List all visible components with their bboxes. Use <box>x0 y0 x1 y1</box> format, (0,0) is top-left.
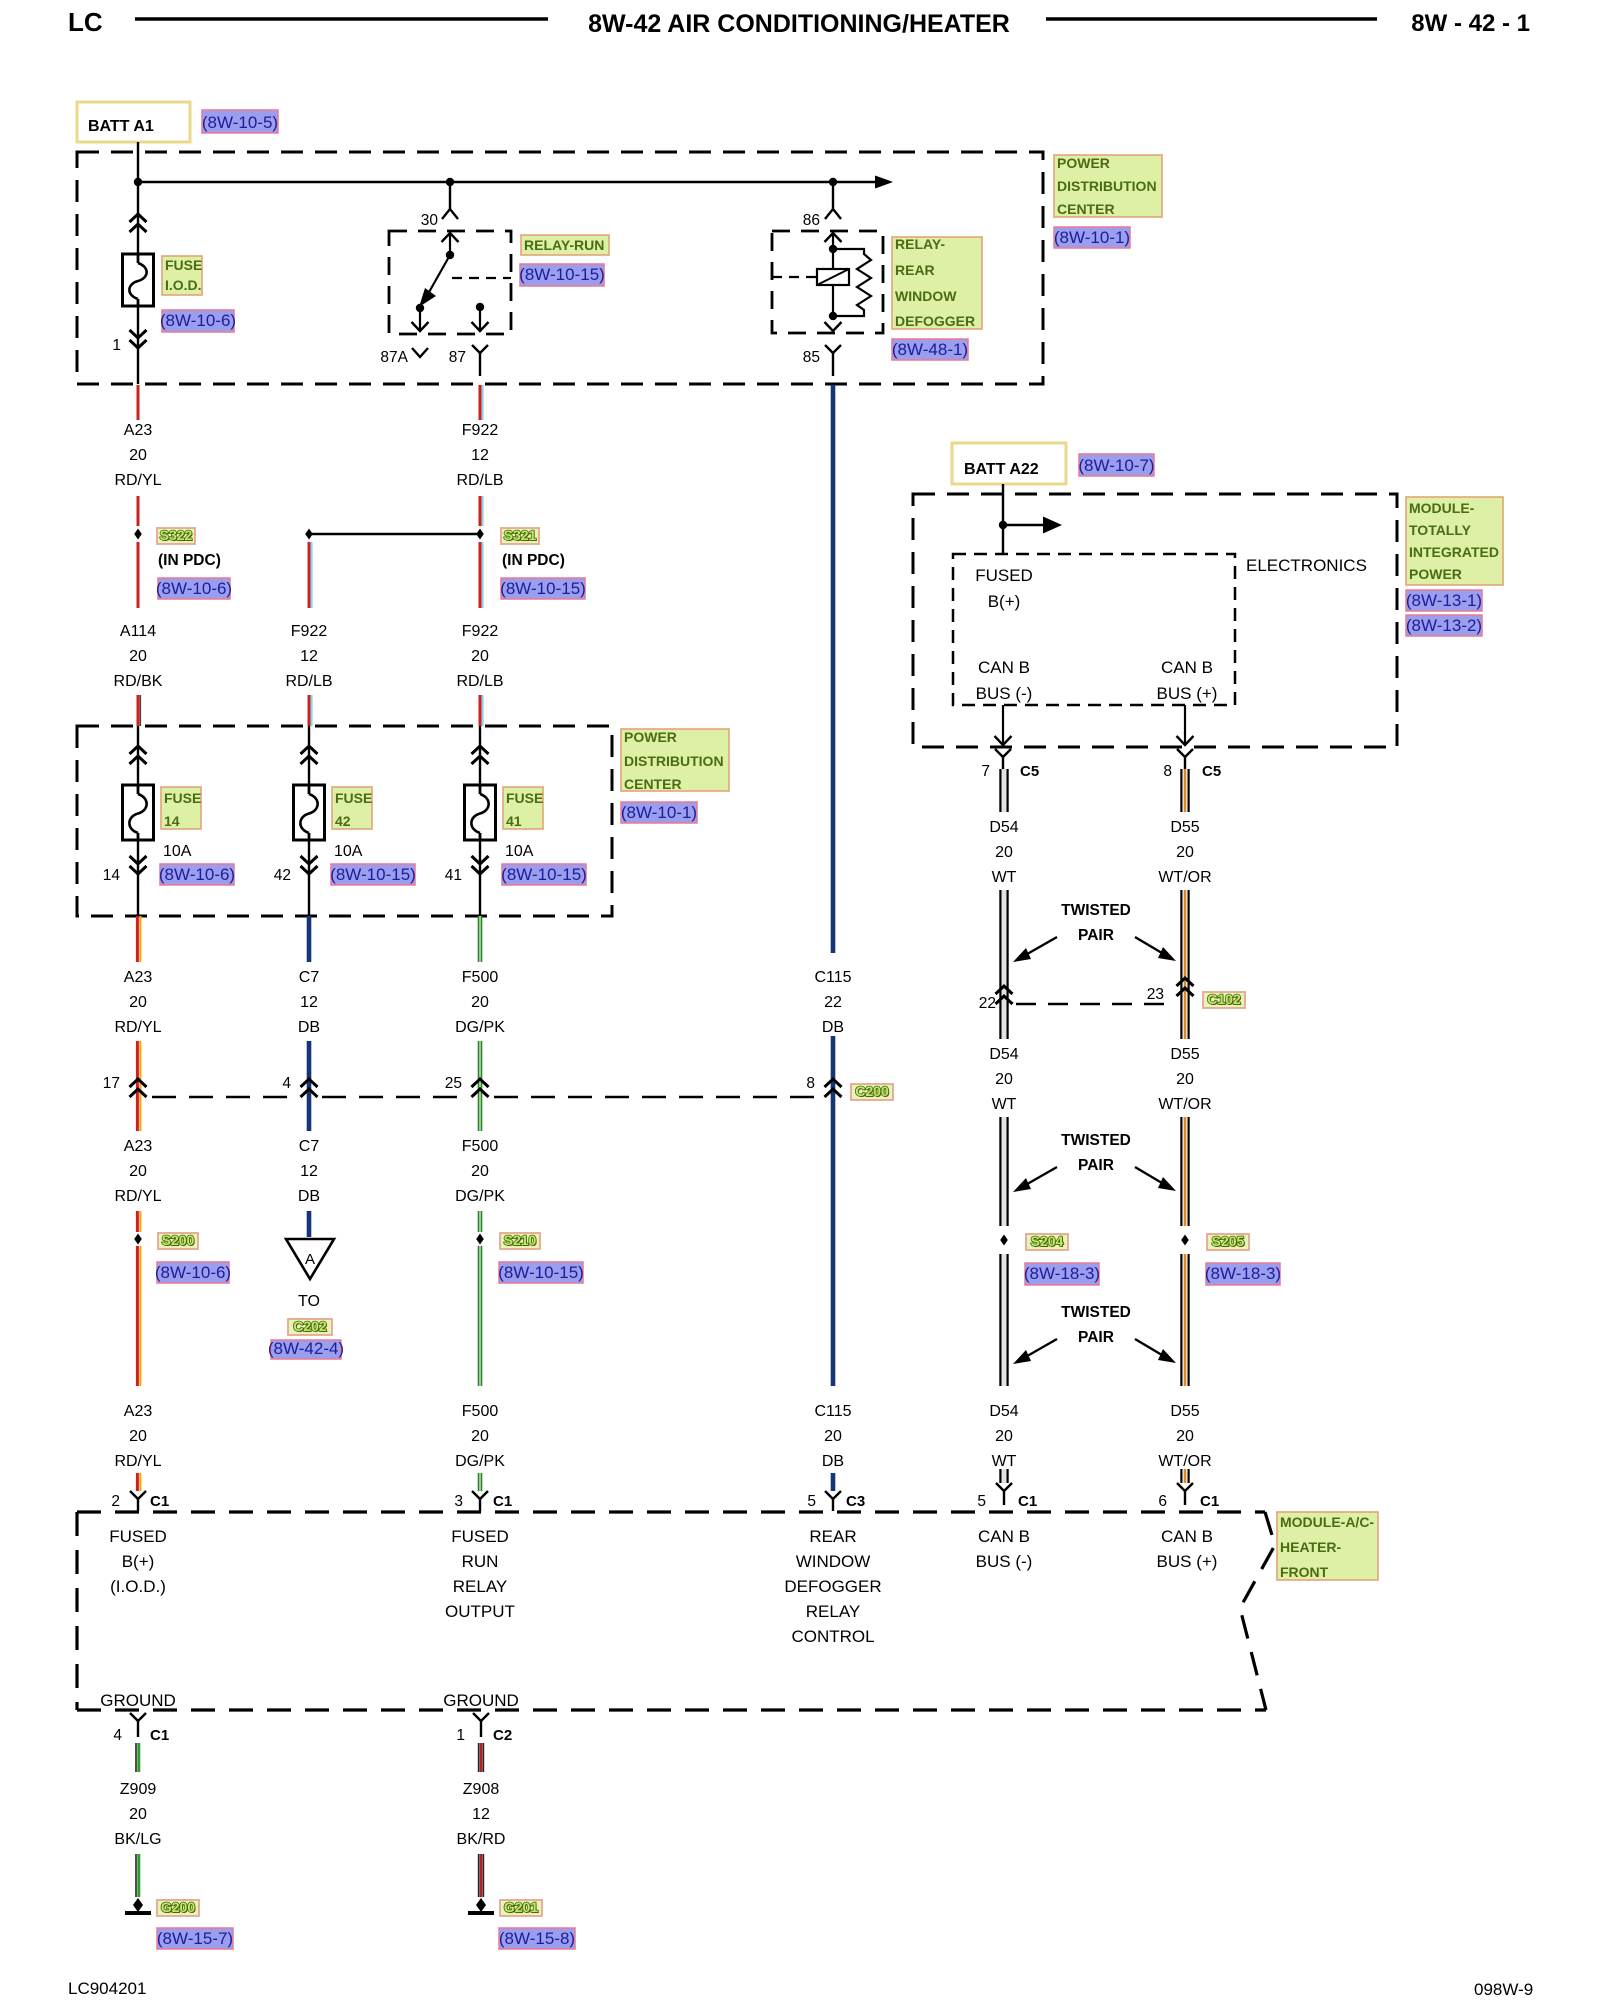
svg-text:BK/RD: BK/RD <box>457 1831 506 1848</box>
svg-text:C200: C200 <box>855 1083 889 1099</box>
svg-text:(8W-13-1): (8W-13-1) <box>1406 591 1482 610</box>
svg-text:(8W-10-6): (8W-10-6) <box>160 311 236 330</box>
svg-text:Z908: Z908 <box>463 1781 500 1798</box>
svg-text:FUSE: FUSE <box>335 790 372 806</box>
svg-text:RD/YL: RD/YL <box>114 1453 161 1470</box>
svg-text:B(+): B(+) <box>988 592 1021 611</box>
svg-text:LC: LC <box>68 7 103 37</box>
svg-text:14: 14 <box>103 867 121 884</box>
svg-text:ELECTRONICS: ELECTRONICS <box>1246 556 1367 575</box>
svg-text:A23: A23 <box>124 1138 153 1155</box>
svg-text:8W - 42 - 1: 8W - 42 - 1 <box>1411 10 1530 37</box>
svg-text:17: 17 <box>103 1075 120 1092</box>
svg-text:A114: A114 <box>120 623 156 640</box>
svg-text:D55: D55 <box>1170 1046 1199 1063</box>
svg-text:S204: S204 <box>1031 1233 1064 1249</box>
svg-text:BUS (-): BUS (-) <box>976 684 1033 703</box>
svg-text:(8W-10-1): (8W-10-1) <box>1054 228 1130 247</box>
svg-text:FUSE: FUSE <box>506 790 543 806</box>
svg-text:DISTRIBUTION: DISTRIBUTION <box>624 753 724 769</box>
svg-text:(8W-10-6): (8W-10-6) <box>159 865 235 884</box>
svg-text:RD/LB: RD/LB <box>456 472 503 489</box>
svg-text:MODULE-A/C-: MODULE-A/C- <box>1280 1514 1374 1530</box>
svg-text:(8W-10-5): (8W-10-5) <box>202 113 278 132</box>
svg-text:B(+): B(+) <box>122 1552 155 1571</box>
svg-text:BUS (+): BUS (+) <box>1157 1552 1218 1571</box>
svg-text:(8W-10-15): (8W-10-15) <box>498 1263 584 1282</box>
svg-text:RD/LB: RD/LB <box>285 673 332 690</box>
svg-text:20: 20 <box>995 1071 1013 1088</box>
svg-text:Z909: Z909 <box>120 1781 157 1798</box>
svg-text:41: 41 <box>445 867 462 884</box>
svg-text:TWISTED: TWISTED <box>1061 902 1131 919</box>
svg-text:5: 5 <box>807 1493 816 1510</box>
svg-text:CAN B: CAN B <box>1161 658 1213 677</box>
svg-text:C115: C115 <box>814 969 851 986</box>
svg-text:C1: C1 <box>150 1493 169 1510</box>
svg-text:TOTALLY: TOTALLY <box>1409 522 1472 538</box>
svg-text:OUTPUT: OUTPUT <box>445 1602 515 1621</box>
svg-text:RD/YL: RD/YL <box>114 472 161 489</box>
svg-text:DB: DB <box>298 1188 320 1205</box>
svg-text:(I.O.D.): (I.O.D.) <box>110 1577 166 1596</box>
svg-text:10A: 10A <box>505 843 534 860</box>
svg-text:20: 20 <box>995 844 1013 861</box>
svg-text:C5: C5 <box>1020 763 1039 780</box>
svg-text:RD/BK: RD/BK <box>114 673 163 690</box>
svg-text:GROUND: GROUND <box>100 1691 176 1710</box>
svg-text:FUSE: FUSE <box>164 790 201 806</box>
svg-text:DB: DB <box>822 1453 844 1470</box>
svg-text:CONTROL: CONTROL <box>791 1627 874 1646</box>
svg-text:20: 20 <box>471 1428 489 1445</box>
svg-text:PAIR: PAIR <box>1078 927 1114 944</box>
svg-text:D54: D54 <box>989 819 1018 836</box>
svg-text:25: 25 <box>445 1075 462 1092</box>
svg-text:BUS (+): BUS (+) <box>1157 684 1218 703</box>
svg-text:22: 22 <box>979 995 996 1012</box>
svg-text:D55: D55 <box>1170 819 1199 836</box>
svg-text:RD/YL: RD/YL <box>114 1019 161 1036</box>
svg-text:F922: F922 <box>462 623 499 640</box>
svg-text:A: A <box>305 1251 315 1268</box>
svg-text:WT: WT <box>992 1096 1017 1113</box>
svg-text:CAN B: CAN B <box>978 1527 1030 1546</box>
svg-text:8: 8 <box>806 1075 815 1092</box>
svg-text:POWER: POWER <box>1409 566 1462 582</box>
svg-text:RD/LB: RD/LB <box>456 673 503 690</box>
svg-text:20: 20 <box>824 1428 842 1445</box>
svg-text:20: 20 <box>471 1163 489 1180</box>
svg-text:G201: G201 <box>504 1899 538 1915</box>
svg-text:20: 20 <box>129 648 147 665</box>
svg-text:C1: C1 <box>493 1493 512 1510</box>
svg-text:REAR: REAR <box>895 262 935 278</box>
svg-text:C5: C5 <box>1202 763 1221 780</box>
svg-text:20: 20 <box>129 1806 147 1823</box>
svg-text:(8W-10-15): (8W-10-15) <box>500 579 586 598</box>
svg-text:CENTER: CENTER <box>624 776 682 792</box>
svg-text:BATT A1: BATT A1 <box>88 118 154 135</box>
svg-text:WT/OR: WT/OR <box>1158 1453 1211 1470</box>
svg-text:RELAY: RELAY <box>806 1602 861 1621</box>
svg-text:FUSED: FUSED <box>975 566 1033 585</box>
svg-text:F922: F922 <box>462 422 499 439</box>
svg-text:WT: WT <box>992 869 1017 886</box>
svg-text:(8W-13-2): (8W-13-2) <box>1406 616 1482 635</box>
svg-text:TWISTED: TWISTED <box>1061 1304 1131 1321</box>
svg-text:8W-42 AIR CONDITIONING/HEATER: 8W-42 AIR CONDITIONING/HEATER <box>588 10 1010 38</box>
svg-text:14: 14 <box>164 813 180 829</box>
svg-text:8: 8 <box>1163 763 1172 780</box>
svg-text:20: 20 <box>471 648 489 665</box>
svg-text:CAN B: CAN B <box>978 658 1030 677</box>
svg-text:RUN: RUN <box>462 1552 499 1571</box>
svg-text:D54: D54 <box>989 1046 1018 1063</box>
svg-text:10A: 10A <box>334 843 363 860</box>
svg-text:S322: S322 <box>160 527 193 543</box>
svg-text:(8W-10-7): (8W-10-7) <box>1078 456 1154 475</box>
svg-text:23: 23 <box>1147 986 1164 1003</box>
svg-text:HEATER-: HEATER- <box>1280 1539 1342 1555</box>
svg-text:22: 22 <box>824 994 842 1011</box>
svg-text:LC904201: LC904201 <box>68 1979 146 1998</box>
svg-text:87: 87 <box>449 349 466 366</box>
svg-text:S200: S200 <box>162 1232 195 1248</box>
svg-text:1: 1 <box>112 337 121 354</box>
svg-text:F922: F922 <box>291 623 328 640</box>
svg-text:(8W-10-1): (8W-10-1) <box>621 803 697 822</box>
svg-text:30: 30 <box>421 212 439 229</box>
svg-text:(8W-42-4): (8W-42-4) <box>268 1339 344 1358</box>
svg-text:(8W-48-1): (8W-48-1) <box>892 340 968 359</box>
svg-text:DISTRIBUTION: DISTRIBUTION <box>1057 178 1157 194</box>
svg-text:DG/PK: DG/PK <box>455 1453 505 1470</box>
svg-text:TO: TO <box>298 1293 320 1310</box>
svg-text:F500: F500 <box>462 1138 499 1155</box>
svg-text:REAR: REAR <box>809 1527 856 1546</box>
svg-text:RELAY-: RELAY- <box>895 236 945 252</box>
svg-text:(8W-10-15): (8W-10-15) <box>501 865 587 884</box>
svg-text:3: 3 <box>454 1493 463 1510</box>
svg-text:TWISTED: TWISTED <box>1061 1132 1131 1149</box>
svg-text:PAIR: PAIR <box>1078 1329 1114 1346</box>
svg-text:20: 20 <box>1176 1428 1194 1445</box>
svg-text:C7: C7 <box>299 969 320 986</box>
svg-text:DB: DB <box>822 1019 844 1036</box>
svg-text:4: 4 <box>113 1727 122 1744</box>
svg-text:C1: C1 <box>1200 1493 1219 1510</box>
svg-text:42: 42 <box>274 867 291 884</box>
svg-text:2: 2 <box>111 1493 120 1510</box>
svg-text:C1: C1 <box>150 1727 169 1744</box>
svg-text:A23: A23 <box>124 1403 153 1420</box>
svg-text:(8W-15-7): (8W-15-7) <box>157 1929 233 1948</box>
svg-text:FUSE: FUSE <box>165 257 202 273</box>
svg-text:C3: C3 <box>846 1493 865 1510</box>
svg-text:(8W-10-15): (8W-10-15) <box>330 865 416 884</box>
svg-text:BK/LG: BK/LG <box>114 1831 161 1848</box>
svg-text:C102: C102 <box>1207 991 1241 1007</box>
svg-text:5: 5 <box>977 1493 986 1510</box>
svg-text:WT/OR: WT/OR <box>1158 1096 1211 1113</box>
svg-text:RELAY-RUN: RELAY-RUN <box>524 237 604 253</box>
svg-text:RD/YL: RD/YL <box>114 1188 161 1205</box>
svg-text:1: 1 <box>456 1727 465 1744</box>
svg-text:S321: S321 <box>504 527 537 543</box>
svg-text:FRONT: FRONT <box>1280 1564 1329 1580</box>
svg-text:CENTER: CENTER <box>1057 201 1115 217</box>
svg-text:12: 12 <box>300 1163 318 1180</box>
svg-text:20: 20 <box>1176 844 1194 861</box>
svg-text:(8W-18-3): (8W-18-3) <box>1024 1264 1100 1283</box>
svg-text:20: 20 <box>471 994 489 1011</box>
svg-text:20: 20 <box>129 994 147 1011</box>
svg-text:WINDOW: WINDOW <box>895 288 957 304</box>
svg-text:A23: A23 <box>124 969 153 986</box>
svg-text:C1: C1 <box>1018 1493 1037 1510</box>
svg-text:I.O.D.: I.O.D. <box>165 277 202 293</box>
svg-text:7: 7 <box>981 763 990 780</box>
svg-text:C2: C2 <box>493 1727 512 1744</box>
svg-text:C7: C7 <box>299 1138 320 1155</box>
svg-text:12: 12 <box>471 447 489 464</box>
svg-text:POWER: POWER <box>624 729 677 745</box>
svg-text:RELAY: RELAY <box>453 1577 508 1596</box>
svg-text:20: 20 <box>129 1163 147 1180</box>
svg-text:86: 86 <box>803 212 820 229</box>
svg-text:WINDOW: WINDOW <box>796 1552 871 1571</box>
svg-text:A23: A23 <box>124 422 153 439</box>
svg-text:MODULE-: MODULE- <box>1409 500 1475 516</box>
svg-text:(8W-10-6): (8W-10-6) <box>156 579 232 598</box>
svg-text:87A: 87A <box>380 349 408 366</box>
svg-text:(IN PDC): (IN PDC) <box>158 552 221 569</box>
svg-text:85: 85 <box>803 349 820 366</box>
svg-text:12: 12 <box>300 994 318 1011</box>
svg-text:(8W-18-3): (8W-18-3) <box>1205 1264 1281 1283</box>
svg-text:BATT A22: BATT A22 <box>964 461 1039 478</box>
svg-text:C115: C115 <box>814 1403 851 1420</box>
svg-text:GROUND: GROUND <box>443 1691 519 1710</box>
svg-text:12: 12 <box>300 648 318 665</box>
svg-text:WT/OR: WT/OR <box>1158 869 1211 886</box>
svg-text:G200: G200 <box>161 1899 195 1915</box>
svg-text:20: 20 <box>1176 1071 1194 1088</box>
svg-text:WT: WT <box>992 1453 1017 1470</box>
svg-text:20: 20 <box>129 447 147 464</box>
svg-text:(IN PDC): (IN PDC) <box>502 552 565 569</box>
svg-text:INTEGRATED: INTEGRATED <box>1409 544 1499 560</box>
svg-text:42: 42 <box>335 813 351 829</box>
svg-text:10A: 10A <box>163 843 192 860</box>
svg-text:DG/PK: DG/PK <box>455 1019 505 1036</box>
svg-text:20: 20 <box>995 1428 1013 1445</box>
svg-text:DEFOGGER: DEFOGGER <box>895 313 975 329</box>
svg-text:CAN B: CAN B <box>1161 1527 1213 1546</box>
svg-text:BUS (-): BUS (-) <box>976 1552 1033 1571</box>
svg-text:FUSED: FUSED <box>109 1527 167 1546</box>
svg-text:D55: D55 <box>1170 1403 1199 1420</box>
svg-text:(8W-15-8): (8W-15-8) <box>499 1929 575 1948</box>
svg-text:4: 4 <box>282 1075 291 1092</box>
svg-text:DB: DB <box>298 1019 320 1036</box>
svg-text:DG/PK: DG/PK <box>455 1188 505 1205</box>
svg-text:FUSED: FUSED <box>451 1527 509 1546</box>
svg-text:F500: F500 <box>462 969 499 986</box>
svg-text:C202: C202 <box>293 1318 327 1334</box>
svg-text:6: 6 <box>1158 1493 1167 1510</box>
svg-text:PAIR: PAIR <box>1078 1157 1114 1174</box>
svg-text:S205: S205 <box>1212 1233 1245 1249</box>
svg-text:12: 12 <box>472 1806 490 1823</box>
svg-text:41: 41 <box>506 813 522 829</box>
svg-text:20: 20 <box>129 1428 147 1445</box>
svg-text:(8W-10-6): (8W-10-6) <box>155 1263 231 1282</box>
svg-text:D54: D54 <box>989 1403 1018 1420</box>
svg-text:S210: S210 <box>504 1232 537 1248</box>
svg-text:DEFOGGER: DEFOGGER <box>784 1577 881 1596</box>
svg-text:(8W-10-15): (8W-10-15) <box>519 265 605 284</box>
svg-text:098W-9: 098W-9 <box>1474 1980 1533 1999</box>
svg-text:POWER: POWER <box>1057 155 1110 171</box>
svg-text:F500: F500 <box>462 1403 499 1420</box>
